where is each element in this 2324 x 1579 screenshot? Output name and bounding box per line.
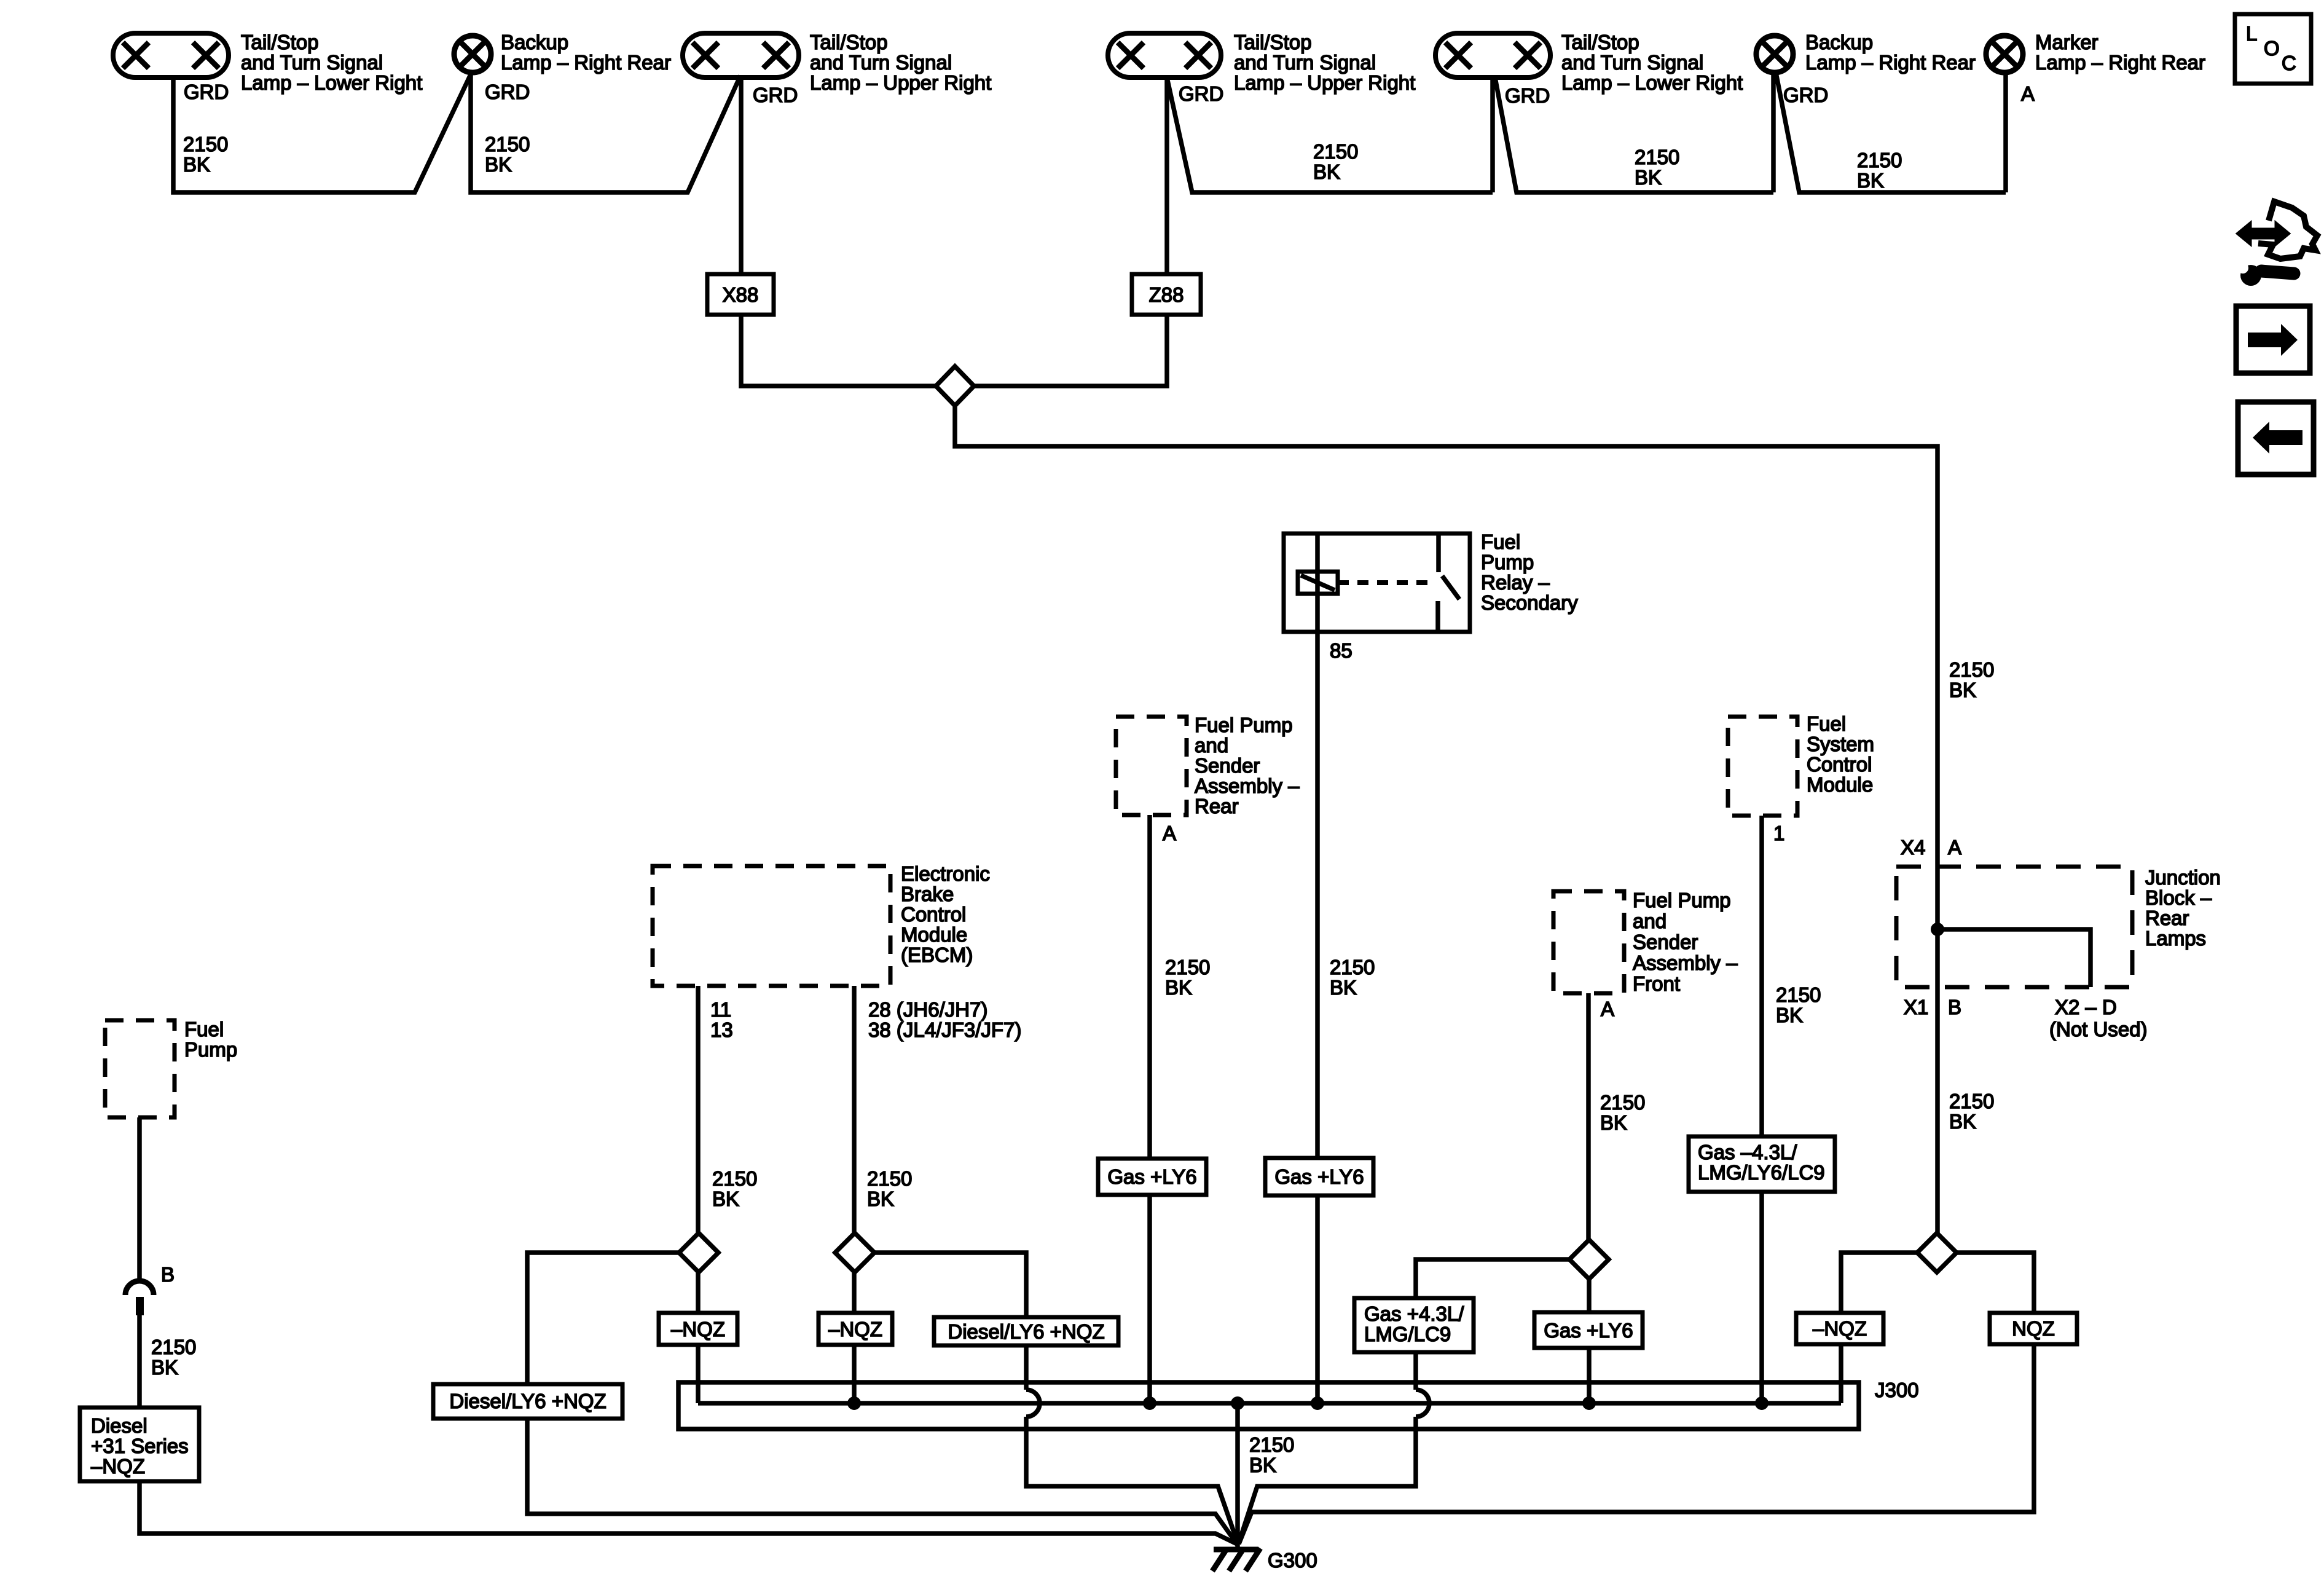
svg-text:Sender: Sender	[1633, 931, 1698, 953]
svg-text:Rear: Rear	[2145, 907, 2189, 929]
svg-text:Control: Control	[901, 903, 966, 926]
svg-text:Fuel: Fuel	[184, 1018, 224, 1041]
module FSCM Fuel System Control Module	[1728, 717, 1797, 816]
svg-text:Tail/Stop: Tail/Stop	[1561, 31, 1639, 53]
lamp E4 Tail/Stop and Turn Signal Lamp - Upper Right	[1108, 33, 1221, 77]
svg-text:85: 85	[1330, 639, 1352, 662]
svg-text:BK: BK	[1635, 166, 1662, 189]
net label Diesel/LY6 +NQZ right	[934, 1317, 1118, 1345]
svg-text:2150: 2150	[867, 1167, 912, 1190]
svg-text:A: A	[1163, 822, 1176, 845]
svg-text:BK: BK	[1165, 976, 1192, 999]
svg-text:LMG/LY6/LC9: LMG/LY6/LC9	[1698, 1161, 1825, 1184]
svg-text:Assembly –: Assembly –	[1195, 774, 1300, 797]
svg-text:Tail/Stop: Tail/Stop	[810, 31, 888, 53]
svg-text:Gas +LY6: Gas +LY6	[1107, 1165, 1196, 1188]
svg-text:2150: 2150	[183, 133, 228, 156]
svg-text:X1: X1	[1904, 996, 1928, 1018]
wire lamp E3 GRD down to connector X88	[739, 77, 744, 274]
svg-text:2150: 2150	[1165, 956, 1210, 979]
svg-text:B: B	[1948, 996, 1961, 1018]
wire lamp E5 GRD legs to bus	[1493, 77, 1773, 192]
svg-text:Pump: Pump	[1481, 551, 1534, 573]
net label Gas +LY6 front sender	[1534, 1312, 1643, 1348]
svg-text:Fuel: Fuel	[1481, 530, 1520, 553]
lamp E3 Tail/Stop and Turn Signal Lamp - Upper Right	[683, 33, 799, 77]
svg-text:2150: 2150	[712, 1167, 757, 1190]
svg-text:System: System	[1807, 733, 1874, 755]
svg-text:+31 Series: +31 Series	[91, 1435, 189, 1457]
wire splice S5 right branch to NQZ	[1957, 1253, 2034, 1313]
svg-text:Module: Module	[1807, 773, 1873, 796]
wire Diesel +31 branch down and right to G300	[139, 1481, 1238, 1545]
svg-text:LMG/LC9: LMG/LC9	[1364, 1323, 1451, 1345]
junction dot rear sender on bus	[1143, 1396, 1156, 1410]
svg-text:Rear: Rear	[1195, 795, 1239, 817]
svg-text:2150: 2150	[1249, 1433, 1294, 1456]
svg-text:A: A	[2021, 82, 2035, 105]
icon arrow-right box	[2236, 306, 2310, 373]
svg-text:BK: BK	[1600, 1111, 1627, 1134]
svg-text:Gas +LY6: Gas +LY6	[1274, 1165, 1364, 1188]
svg-text:–NQZ: –NQZ	[1813, 1317, 1867, 1340]
connector C1 Fuel Pump and Sender Assembly - Rear	[1116, 717, 1187, 815]
svg-text:Lamp – Right Rear: Lamp – Right Rear	[1805, 51, 1976, 74]
svg-text:G300: G300	[1268, 1549, 1317, 1572]
lamp E6 Backup Lamp - Right Rear	[1756, 36, 1793, 73]
svg-text:Tail/Stop: Tail/Stop	[1234, 31, 1312, 53]
svg-text:BK: BK	[1949, 1110, 1976, 1133]
svg-text:Lamps: Lamps	[2145, 927, 2206, 950]
junction dot FSCM wire on bus	[1755, 1396, 1769, 1410]
wire Gas 4.3L branch hop over J300 bus to G300	[1239, 1352, 1429, 1543]
wire 2150 BK rear sender to J300	[1147, 815, 1152, 1403]
svg-text:2150: 2150	[1330, 956, 1375, 979]
svg-text:2150: 2150	[1776, 983, 1821, 1006]
svg-text:–NQZ: –NQZ	[91, 1455, 145, 1478]
svg-text:GRD: GRD	[1783, 84, 1828, 106]
svg-text:A: A	[1601, 998, 1614, 1020]
svg-text:and: and	[1195, 734, 1228, 757]
junction dot EBCM wire2 on bus	[847, 1396, 861, 1410]
splice S4 diamond	[1569, 1240, 1609, 1279]
lamp E7 Marker Lamp - Right Rear	[1986, 36, 2023, 73]
splice S5 diamond	[1917, 1233, 1957, 1272]
relay K2 Fuel Pump Relay - Secondary	[1284, 534, 1470, 632]
svg-text:28 (JH6/JH7): 28 (JH6/JH7)	[868, 998, 987, 1021]
wire inside junction block to X2-D	[1937, 929, 2090, 987]
wire splice S4 left branch to Gas 4.3L vertical	[1416, 1259, 1569, 1298]
wire 2150 BK ground bus inside J300	[698, 1401, 1841, 1406]
net label Diesel/LY6 +NQZ left	[433, 1384, 622, 1419]
svg-text:GRD: GRD	[485, 81, 530, 103]
inline connector pin B symbol	[125, 1281, 154, 1315]
lamp E5 Tail/Stop and Turn Signal Lamp - Lower Right	[1435, 33, 1550, 77]
net label -NQZ EBCM wire2	[819, 1313, 892, 1345]
svg-text:2150: 2150	[1635, 146, 1679, 168]
svg-text:Gas +4.3L/: Gas +4.3L/	[1364, 1302, 1464, 1325]
net label Gas -4.3L/LMG/LY6/LC9	[1689, 1136, 1835, 1192]
svg-text:X2 – D: X2 – D	[2055, 996, 2117, 1018]
wire front sender pin A to splice S4	[1586, 993, 1591, 1240]
junction block Junction Block - Rear Lamps	[1896, 867, 2132, 987]
svg-text:A: A	[1948, 836, 1961, 859]
svg-text:2150: 2150	[485, 133, 530, 156]
svg-text:BK: BK	[1330, 976, 1357, 999]
svg-text:Module: Module	[901, 923, 967, 946]
svg-text:Backup: Backup	[1805, 31, 1873, 53]
junction dot front sender on bus	[1582, 1396, 1596, 1410]
svg-text:Marker: Marker	[2035, 31, 2098, 53]
splice S1 diamond	[936, 366, 974, 406]
lamp E1 Tail/Stop and Turn Signal Lamp - Lower Right	[113, 33, 229, 77]
svg-text:Pump: Pump	[184, 1038, 237, 1061]
svg-text:BK: BK	[151, 1356, 178, 1379]
svg-text:X88: X88	[723, 283, 759, 306]
wire EBCM pin11 down to splice S2	[696, 986, 701, 1233]
svg-text:Secondary: Secondary	[1481, 591, 1578, 614]
svg-text:Assembly –: Assembly –	[1633, 951, 1738, 974]
wire lamp E6 GRD legs to bus	[1773, 73, 2006, 192]
wire FSCM pin1 down to J300	[1759, 816, 1764, 1403]
svg-text:2150: 2150	[1949, 658, 1994, 681]
svg-text:2150: 2150	[151, 1336, 196, 1358]
svg-text:and Turn Signal: and Turn Signal	[810, 51, 952, 74]
wire 2150 BK from lamp E2 to lamp E3	[471, 73, 740, 192]
wire Gas +LY6 front sender to J300 bus wire	[1587, 1348, 1592, 1403]
svg-text:NQZ: NQZ	[2012, 1317, 2055, 1340]
svg-text:Diesel: Diesel	[91, 1414, 147, 1437]
svg-text:Z88: Z88	[1149, 283, 1184, 306]
wire fuel pump down to inline connector B	[137, 1117, 142, 1281]
connector C2 Fuel Pump and Sender Assembly - Front	[1553, 891, 1624, 993]
svg-text:BK: BK	[183, 153, 210, 176]
junction dot ground drop on bus	[1231, 1396, 1244, 1410]
wire Z88 to splice diamond	[974, 315, 1167, 386]
wire splice S3 right branch to Diesel/LY6 vertical	[874, 1253, 1026, 1317]
wire 2150 BK inline connector to Diesel +31 label	[137, 1315, 142, 1408]
wire junction block B down to splice S5	[1935, 865, 1940, 1233]
net label Gas +4.3L/LMG/LC9	[1354, 1298, 1474, 1352]
lamp E2 Backup Lamp - Right Rear	[454, 36, 491, 73]
svg-text:GRD: GRD	[753, 84, 798, 106]
net label -NQZ EBCM wire1	[659, 1313, 737, 1345]
svg-text:Sender: Sender	[1195, 754, 1260, 777]
wire splice S4 down to Gas +LY6 label	[1587, 1279, 1592, 1312]
svg-text:GRD: GRD	[1505, 84, 1550, 107]
connector C3 Fuel Pump (diesel)	[105, 1020, 175, 1117]
svg-text:Tail/Stop: Tail/Stop	[241, 31, 319, 53]
wire splice S1 to junction block X4-A	[955, 406, 1937, 865]
svg-text:Lamp – Upper Right: Lamp – Upper Right	[810, 71, 991, 94]
svg-text:BK: BK	[867, 1187, 894, 1210]
wire -NQZ2 to J300 bus wire	[852, 1345, 857, 1403]
svg-text:Junction: Junction	[2145, 866, 2221, 889]
svg-text:2150: 2150	[1600, 1091, 1645, 1114]
svg-text:B: B	[161, 1263, 175, 1286]
wire splice S2 left branch to Diesel vertical	[527, 1253, 679, 1384]
junction inside block dot	[1931, 923, 1944, 936]
svg-text:Fuel Pump: Fuel Pump	[1195, 714, 1293, 736]
connector Z88	[1132, 274, 1201, 315]
svg-text:and: and	[1633, 910, 1666, 932]
svg-text:Fuel Pump: Fuel Pump	[1633, 889, 1731, 912]
wire EBCM pin28 down to splice S3	[852, 986, 857, 1233]
svg-text:(Not Used): (Not Used)	[2049, 1018, 2148, 1041]
svg-text:Block –: Block –	[2145, 886, 2212, 909]
svg-text:X4: X4	[1901, 836, 1925, 859]
svg-text:Control: Control	[1807, 753, 1872, 776]
wire X88 to splice diamond	[741, 315, 936, 386]
svg-text:Diesel/LY6 +NQZ: Diesel/LY6 +NQZ	[948, 1320, 1104, 1343]
svg-text:L: L	[2246, 22, 2257, 45]
svg-text:Brake: Brake	[901, 883, 954, 905]
net label -NQZ right	[1796, 1313, 1883, 1344]
splice S3 diamond	[835, 1233, 874, 1272]
svg-text:BK: BK	[1313, 160, 1340, 183]
svg-text:11: 11	[710, 998, 731, 1021]
svg-text:–NQZ: –NQZ	[828, 1318, 882, 1341]
wire NQZ branch down and left to G300	[1239, 1344, 2034, 1544]
wire 2150 BK diagonal lamp E4 to right bus	[1167, 77, 1493, 192]
splice S2 diamond	[679, 1233, 718, 1272]
svg-text:and Turn Signal: and Turn Signal	[241, 51, 383, 74]
svg-text:Lamp – Lower Right: Lamp – Lower Right	[1561, 71, 1743, 94]
svg-text:BK: BK	[1249, 1454, 1276, 1476]
svg-text:38 (JL4/JF3/JF7): 38 (JL4/JF3/JF7)	[868, 1018, 1021, 1041]
svg-text:GRD: GRD	[1179, 82, 1223, 105]
svg-text:Lamp – Upper Right: Lamp – Upper Right	[1234, 71, 1415, 94]
svg-text:Gas +LY6: Gas +LY6	[1544, 1319, 1633, 1342]
wire Diesel/LY6 branch down to G300 run	[527, 1419, 1237, 1544]
junction dot relay wire on bus	[1311, 1396, 1324, 1410]
icon swap-wrench	[2237, 202, 2317, 286]
wire 2150 BK from lamp E1 to lamp E2	[173, 74, 471, 192]
svg-text:BK: BK	[712, 1187, 739, 1210]
wire 2150 BK relay pin 85 down to J300	[1315, 534, 1320, 1403]
net label NQZ	[1990, 1313, 2077, 1344]
svg-text:C: C	[2282, 52, 2296, 74]
svg-text:Relay –: Relay –	[1481, 571, 1550, 594]
svg-text:Electronic: Electronic	[901, 862, 990, 885]
svg-text:GRD: GRD	[184, 81, 229, 103]
svg-text:BK: BK	[485, 153, 512, 176]
svg-text:Front: Front	[1633, 972, 1680, 995]
wire -NQZ to J300 bus wire	[696, 1345, 701, 1403]
svg-text:(EBCM): (EBCM)	[901, 943, 973, 966]
wire -NQZ right to J300 bus wire	[1839, 1344, 1843, 1403]
net label Gas +LY6 rear sender branch	[1098, 1159, 1206, 1195]
wire lamp E4 GRD down to connector Z88	[1164, 77, 1169, 274]
net label Diesel +31 Series -NQZ	[80, 1408, 199, 1481]
svg-text:BK: BK	[1857, 169, 1884, 192]
svg-text:2150: 2150	[1857, 149, 1902, 171]
svg-text:Lamp – Lower Right: Lamp – Lower Right	[241, 71, 422, 94]
ground G300 symbol	[1212, 1548, 1260, 1571]
svg-text:BK: BK	[1776, 1004, 1803, 1026]
connector X88	[707, 274, 774, 315]
svg-text:Diesel/LY6 +NQZ: Diesel/LY6 +NQZ	[449, 1390, 606, 1412]
svg-text:2150: 2150	[1313, 140, 1358, 163]
svg-text:2150: 2150	[1949, 1090, 1994, 1112]
wire lamp E7 pin A to bus	[2003, 73, 2008, 192]
wire Diesel/LY6 right branch hop over J300 bus to G300	[1026, 1345, 1238, 1543]
wire splice S2 down to -NQZ label	[696, 1272, 701, 1313]
svg-text:Lamp – Right Rear: Lamp – Right Rear	[501, 51, 671, 74]
svg-text:–NQZ: –NQZ	[671, 1318, 725, 1341]
wire splice S3 down to -NQZ label2	[852, 1272, 857, 1313]
svg-text:Lamp – Right Rear: Lamp – Right Rear	[2035, 51, 2205, 74]
svg-text:J300: J300	[1875, 1379, 1919, 1401]
wire splice S5 left branch to -NQZ	[1841, 1253, 1917, 1313]
module EBCM Electronic Brake Control Module	[653, 866, 890, 986]
junction block J300 bus outline	[678, 1382, 1859, 1429]
net label Gas +LY6 relay branch	[1265, 1158, 1373, 1195]
svg-text:BK: BK	[1949, 679, 1976, 701]
svg-text:13: 13	[710, 1018, 733, 1041]
svg-text:Gas –4.3L/: Gas –4.3L/	[1698, 1141, 1797, 1164]
svg-text:1: 1	[1773, 822, 1784, 845]
svg-text:and Turn Signal: and Turn Signal	[1234, 51, 1376, 74]
svg-text:O: O	[2264, 37, 2280, 60]
LOC legend box	[2235, 14, 2311, 84]
icon arrow-left box	[2238, 402, 2314, 474]
svg-text:Fuel: Fuel	[1807, 712, 1846, 735]
wire 2150 BK ground drop to G300	[1235, 1403, 1240, 1548]
svg-text:Backup: Backup	[501, 31, 568, 53]
svg-text:and Turn Signal: and Turn Signal	[1561, 51, 1703, 74]
